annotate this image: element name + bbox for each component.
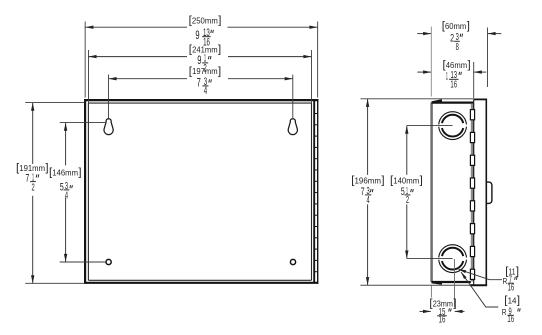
- svg-text:2: 2: [450, 32, 454, 44]
- svg-text:]: ]: [218, 15, 221, 27]
- svg-text:46mm: 46mm: [446, 60, 467, 70]
- svg-text:R: R: [502, 307, 507, 317]
- svg-text:9: 9: [197, 53, 201, 67]
- svg-text:R: R: [503, 276, 508, 286]
- svg-text:7: 7: [361, 186, 365, 198]
- dim 146mm dimension line: [65, 123, 67, 166]
- label 15/16 inch: [437, 307, 451, 326]
- svg-text:250mm: 250mm: [192, 15, 218, 25]
- side body top edge: [431, 101, 473, 103]
- label 7 1/2 inch: [25, 172, 38, 193]
- dim 23mm dimension line right arrow: [455, 310, 465, 312]
- dim 23mm dimension line left arrow: [420, 310, 431, 312]
- dim 140mm extension line bottom: [407, 258, 453, 260]
- label [60mm]: [442, 20, 470, 32]
- dim 197mm extension line left: [108, 75, 110, 120]
- dim 196mm extension line top: [361, 98, 474, 100]
- dim 140mm dimension line: [406, 126, 408, 175]
- door bottom edge: [470, 284, 487, 286]
- label [250mm]: [189, 15, 222, 27]
- svg-text:4: 4: [65, 191, 68, 202]
- svg-text:16: 16: [507, 314, 514, 325]
- dim 46mm extension line right: [473, 62, 475, 98]
- enclosure front inner flange line right: [311, 103, 313, 280]
- label R 7/16 inch: [503, 274, 518, 293]
- label [146mm]: [49, 167, 82, 179]
- svg-text:]: ]: [381, 175, 384, 187]
- label [46mm]: [443, 59, 471, 71]
- svg-text:7: 7: [197, 75, 201, 89]
- dim 241mm extension line left: [88, 50, 90, 103]
- dim 250mm extension line left: [84, 22, 86, 98]
- svg-text:]: ]: [218, 65, 221, 77]
- label 7 3/4 inch: [197, 75, 212, 97]
- bottom knockout outer circle: [439, 245, 467, 273]
- label R 9/16 inch: [502, 306, 520, 325]
- dim 191mm dimension line: [32, 103, 34, 164]
- dim 250mm dimension line: [85, 26, 187, 28]
- svg-text:]: ]: [517, 295, 520, 307]
- svg-text:]: ]: [468, 59, 471, 71]
- enclosure front outer outline right edge: [317, 99, 319, 284]
- leader to R9/16 knockout radius: [461, 272, 498, 307]
- svg-text:140mm: 140mm: [393, 176, 419, 186]
- dim 191mm extension line bottom: [25, 282, 85, 284]
- dim 241mm dimension line: [89, 56, 188, 58]
- svg-text:60mm: 60mm: [445, 21, 466, 31]
- enclosure front inner flange line bottom: [88, 279, 311, 281]
- label 7 3/4 inch side: [361, 186, 373, 206]
- dim 196mm extension line bottom: [360, 284, 470, 286]
- dim 196mm dimension line: [367, 99, 369, 175]
- label 9 13/16 inch: [195, 27, 213, 48]
- door top edge: [474, 98, 488, 100]
- hinge rail inner (front view right side): [313, 101, 315, 282]
- dim 197mm dimension line: [109, 78, 187, 80]
- dim 46mm dimension line left arrow: [417, 71, 431, 73]
- bottom mounting hole left: [106, 259, 111, 264]
- label 2 3/8 inch: [450, 32, 463, 53]
- enclosure front outer outline bottom edge: [84, 282, 318, 284]
- dim 60mm dimension line left arrow: [417, 33, 431, 35]
- svg-text:]: ]: [453, 298, 456, 310]
- svg-text:5: 5: [401, 186, 405, 198]
- dim 146mm extension line top: [60, 122, 106, 124]
- dim 60mm extension line left: [430, 27, 432, 97]
- svg-text:7: 7: [25, 172, 29, 184]
- dim 23mm extension line left: [430, 286, 432, 298]
- top knockout outer circle: [439, 112, 467, 140]
- hinge knuckles (side view): [470, 110, 474, 280]
- hinge rungs (front view right side): [315, 114, 318, 272]
- dim 46mm dimension line right arrow: [474, 71, 486, 73]
- side body top-left corner wedge: [431, 99, 442, 103]
- enclosure front outer outline left edge: [84, 99, 86, 284]
- svg-text:5: 5: [60, 182, 64, 194]
- label [197mm]: [189, 65, 221, 77]
- dim 60mm dimension line right arrow: [488, 33, 502, 35]
- bottom knockout inner ring: [442, 248, 463, 270]
- svg-text:9: 9: [195, 28, 199, 42]
- side body bottom-left corner wedge: [431, 281, 442, 285]
- svg-text:14: 14: [508, 295, 517, 305]
- label [23mm]: [429, 298, 456, 310]
- enclosure front inner flange line top: [88, 102, 311, 104]
- side body left edge: [430, 103, 433, 282]
- svg-text:16: 16: [439, 314, 446, 325]
- label [191mm]: [16, 162, 49, 174]
- svg-text:4: 4: [204, 85, 207, 97]
- label [14]: [504, 295, 520, 307]
- dim 146mm extension line bottom: [60, 261, 106, 263]
- svg-text:191mm: 191mm: [19, 163, 45, 173]
- label 1 13/16 inch: [446, 70, 462, 90]
- svg-text:16: 16: [450, 79, 457, 90]
- dim 197mm extension line right: [292, 75, 294, 120]
- label [11]: [505, 266, 519, 278]
- label [140mm]: [390, 175, 423, 187]
- keyhole mounting slot left: [104, 119, 113, 135]
- side body right edge line: [473, 99, 475, 285]
- svg-text:196mm: 196mm: [355, 176, 382, 186]
- door front face: [485, 99, 487, 285]
- svg-text:146mm: 146mm: [52, 167, 78, 177]
- svg-text:16: 16: [508, 283, 515, 294]
- svg-text:8: 8: [456, 42, 459, 53]
- enclosure front outer outline top edge: [84, 99, 318, 101]
- svg-text:4: 4: [367, 195, 370, 206]
- keyhole mounting slot right: [288, 119, 297, 135]
- bottom mounting hole right: [290, 259, 295, 264]
- dim 250mm extension line right: [317, 22, 319, 98]
- door latch knob: [487, 182, 492, 203]
- svg-text:]: ]: [78, 167, 81, 179]
- hinge strip (side view): [471, 104, 475, 282]
- label 5 3/4 inch: [60, 181, 73, 201]
- leader to R7/16 knockout radius: [459, 269, 502, 279]
- dim 23mm extension line right: [454, 259, 456, 308]
- label [196mm]: [351, 175, 384, 187]
- dim 191mm extension line top: [25, 102, 85, 104]
- svg-text:]: ]: [420, 175, 423, 187]
- dim 241mm extension line right: [310, 50, 312, 103]
- svg-text:]: ]: [467, 20, 470, 32]
- label [241mm]: [189, 44, 221, 56]
- dim 60mm extension line right: [487, 28, 489, 88]
- label 9 1/2 inch: [197, 53, 211, 75]
- svg-text:]: ]: [218, 44, 221, 56]
- enclosure front inner flange line left: [87, 103, 89, 280]
- svg-text:]: ]: [516, 266, 519, 278]
- dim 140mm extension line top: [407, 125, 453, 127]
- svg-text:2: 2: [32, 183, 35, 194]
- svg-text:1: 1: [446, 71, 448, 83]
- svg-text:2: 2: [406, 195, 409, 206]
- label 5 1/2 inch: [401, 186, 414, 206]
- top knockout inner ring: [442, 115, 463, 137]
- side body bottom edge: [431, 281, 470, 283]
